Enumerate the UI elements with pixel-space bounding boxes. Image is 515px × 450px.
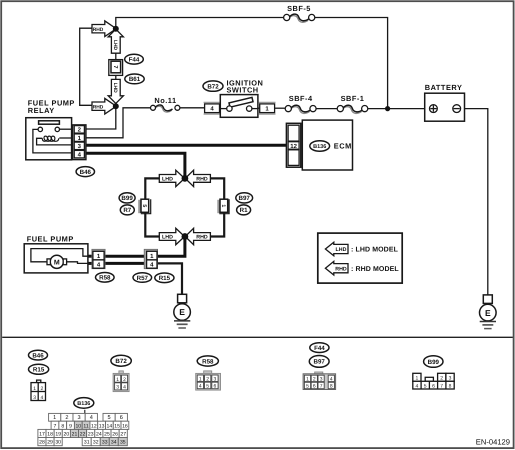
svg-text:1: 1 — [33, 386, 36, 392]
svg-text:R1: R1 — [240, 207, 248, 214]
pinout connector R58 3x2 — [196, 371, 221, 390]
svg-text:RELAY: RELAY — [28, 106, 55, 115]
svg-text:5: 5 — [206, 384, 209, 390]
svg-text:8: 8 — [61, 423, 64, 429]
oval label B46 — [76, 167, 94, 177]
pinout connector B97 2x4 — [303, 372, 336, 390]
svg-text:6: 6 — [214, 384, 217, 390]
svg-text:8: 8 — [330, 384, 333, 390]
svg-text:3: 3 — [320, 377, 323, 383]
wire bottom node down to fuel pump feed row (thick) — [157, 237, 185, 257]
node diamond top — [182, 175, 189, 182]
svg-text:B61: B61 — [129, 76, 141, 83]
oval label R58 — [96, 273, 115, 283]
svg-text:14: 14 — [107, 423, 113, 429]
svg-text:LHD: LHD — [336, 247, 347, 253]
connector arrow RHD bottom — [92, 98, 116, 114]
node diamond bottom — [182, 233, 189, 240]
svg-text:3: 3 — [449, 376, 452, 382]
svg-text:: RHD MODEL: : RHD MODEL — [351, 266, 399, 273]
ground E left — [174, 294, 191, 328]
legend box LHD/RHD model — [318, 233, 402, 283]
pinout oval R58 — [197, 356, 218, 366]
svg-text:ECM: ECM — [334, 142, 352, 151]
svg-text:R15: R15 — [33, 367, 45, 374]
svg-text:F44: F44 — [129, 57, 140, 64]
svg-text:R58: R58 — [99, 275, 111, 282]
pinout oval R15 — [28, 364, 48, 374]
wire diamond left branch to connector B99/R7 — [145, 178, 160, 236]
oval label B99 — [119, 193, 135, 203]
pinout oval B99 — [424, 356, 443, 368]
connector arrow RHD top — [92, 21, 116, 37]
svg-text:3: 3 — [78, 415, 81, 421]
svg-text:1: 1 — [416, 376, 419, 382]
svg-text:4: 4 — [199, 384, 202, 390]
fusible link SBF-5 — [284, 4, 315, 22]
svg-text:11: 11 — [83, 423, 88, 429]
svg-text:22: 22 — [80, 432, 86, 438]
pinout oval B136 — [74, 398, 94, 409]
svg-text:7: 7 — [320, 384, 323, 390]
svg-text:29: 29 — [47, 440, 53, 446]
fuse F44 (No.7) — [109, 60, 123, 76]
svg-text:F44: F44 — [314, 345, 325, 352]
svg-text:FUEL PUMP: FUEL PUMP — [27, 234, 74, 243]
node chain bottom — [113, 103, 119, 109]
svg-text:B99: B99 — [121, 195, 133, 202]
svg-text:4: 4 — [123, 385, 126, 391]
svg-text:1: 1 — [306, 377, 309, 383]
svg-text:SWITCH: SWITCH — [227, 86, 259, 95]
wire diamond right branch to connector B97/R1 — [210, 178, 224, 236]
svg-text:1: 1 — [116, 377, 119, 383]
svg-text:31: 31 — [84, 440, 90, 446]
oval label B97 — [236, 193, 253, 203]
pinout oval F44 — [310, 343, 329, 353]
svg-text:R57: R57 — [137, 275, 149, 282]
svg-text:5: 5 — [141, 204, 147, 207]
wire chain segments between arrows and fuse — [115, 53, 117, 80]
oval label R7 — [120, 205, 134, 215]
svg-text:17: 17 — [39, 432, 45, 438]
svg-text:R7: R7 — [123, 207, 131, 214]
fuel pump assembly — [24, 234, 92, 273]
svg-text:M: M — [54, 260, 60, 267]
svg-text:LHD: LHD — [162, 235, 173, 241]
svg-text:B136: B136 — [313, 144, 326, 150]
svg-text:No.11: No.11 — [154, 96, 176, 105]
wire relay pin3 to ECM pin 12 (thick) — [86, 144, 288, 147]
svg-text:24: 24 — [96, 432, 102, 438]
ignition switch B72 — [203, 79, 276, 118]
svg-text:7: 7 — [54, 423, 57, 429]
fuel pump relay B46 — [26, 99, 86, 160]
svg-text:4: 4 — [41, 395, 44, 401]
pinout connector B46/R15 2x2 — [31, 380, 46, 401]
svg-text:SBF-1: SBF-1 — [341, 94, 365, 103]
svg-text:B46: B46 — [32, 352, 44, 359]
svg-text:2: 2 — [41, 386, 44, 392]
wire top rail from LHD/RHD chain to SBF-5 and down to battery junction — [116, 18, 388, 109]
ECM B136 — [286, 120, 352, 170]
svg-text:23: 23 — [88, 432, 94, 438]
fusible link SBF-1 — [337, 94, 368, 113]
svg-text:33: 33 — [102, 440, 108, 446]
svg-text:4: 4 — [416, 383, 419, 389]
connector R57/R15 — [144, 249, 157, 268]
pinout connector B72 2x2 — [113, 371, 129, 392]
svg-text:7: 7 — [112, 65, 118, 68]
wire battery minus to right ground — [461, 109, 488, 295]
svg-text:SBF-5: SBF-5 — [287, 4, 311, 13]
connector arrow LHD down (bottom of chain) — [108, 79, 123, 103]
svg-text:2: 2 — [123, 377, 126, 383]
svg-text:7: 7 — [440, 383, 443, 389]
svg-text:28: 28 — [39, 440, 45, 446]
svg-text:21: 21 — [72, 432, 78, 438]
wire relay pin4 to LHD/RHD top node (thick) — [86, 153, 185, 176]
svg-text:4: 4 — [90, 415, 93, 421]
svg-text:4: 4 — [330, 377, 333, 383]
wire relay pin2 up to chain node — [86, 106, 116, 129]
pinout oval B46 — [29, 350, 48, 360]
svg-text:6: 6 — [313, 384, 316, 390]
svg-text:LHD: LHD — [112, 40, 118, 51]
svg-text:R58: R58 — [202, 358, 214, 365]
oval label R57 — [133, 273, 152, 283]
connector B97/R1 (right diamond) — [217, 199, 229, 214]
wire relay pin1 to No.11 fuse and ignition switch row — [86, 108, 430, 138]
svg-text:18: 18 — [47, 432, 53, 438]
connector R58 (on pump) — [92, 249, 105, 268]
svg-text:3: 3 — [214, 377, 217, 383]
drawing number EN-04129 — [476, 438, 510, 447]
svg-text:1: 1 — [199, 377, 202, 383]
connector arrow LHD up (top) — [108, 29, 123, 53]
connector arrow RHD (top node, right) — [185, 170, 210, 186]
svg-text:R15: R15 — [159, 275, 171, 282]
connector arrow LHD (bottom node, left) — [159, 228, 184, 244]
svg-text:13: 13 — [99, 423, 105, 429]
pinout connector B136 grid — [38, 410, 129, 446]
node battery junction — [385, 106, 390, 111]
oval label R1 — [237, 205, 251, 215]
svg-text:RHD: RHD — [196, 177, 208, 183]
svg-text:1: 1 — [220, 204, 226, 207]
svg-text:12: 12 — [91, 423, 97, 429]
svg-text:3: 3 — [116, 385, 119, 391]
svg-text:RHD: RHD — [93, 27, 104, 33]
svg-text:20: 20 — [64, 432, 70, 438]
svg-text:2: 2 — [313, 377, 316, 383]
ground E right — [480, 295, 497, 329]
svg-text:16: 16 — [122, 423, 128, 429]
pinout oval B72 — [111, 355, 131, 366]
svg-text:2: 2 — [206, 377, 209, 383]
svg-text:B72: B72 — [207, 83, 219, 90]
svg-text:SBF-4: SBF-4 — [289, 94, 313, 103]
node chain top — [113, 26, 119, 32]
svg-text:RHD: RHD — [335, 266, 347, 272]
svg-text:8: 8 — [449, 383, 452, 389]
svg-text:B97: B97 — [239, 195, 251, 202]
wire left RHD bypass rail — [80, 28, 93, 105]
oval label R15 — [155, 273, 174, 283]
wire fuel pump connector rows (thick) — [88, 256, 145, 263]
svg-text:LHD: LHD — [112, 83, 118, 94]
connector B99/R7 (left diamond) — [138, 199, 151, 214]
fuse No.11 — [151, 96, 180, 112]
svg-text:RHD: RHD — [196, 235, 208, 241]
svg-text:: LHD MODEL: : LHD MODEL — [351, 247, 399, 254]
svg-text:25: 25 — [104, 432, 110, 438]
pinout connector B99 — [413, 373, 454, 389]
pinout oval B97 — [309, 356, 329, 368]
svg-text:B97: B97 — [314, 359, 326, 366]
oval label F44 — [125, 54, 144, 64]
svg-text:BATTERY: BATTERY — [425, 83, 463, 92]
svg-text:5: 5 — [424, 383, 427, 389]
svg-text:3: 3 — [33, 395, 36, 401]
svg-text:6: 6 — [432, 383, 435, 389]
oval label B61 — [125, 74, 144, 84]
svg-text:LHD: LHD — [162, 177, 173, 183]
svg-text:2: 2 — [65, 415, 68, 421]
svg-text:6: 6 — [120, 415, 123, 421]
svg-text:2: 2 — [440, 376, 443, 382]
svg-text:B72: B72 — [115, 358, 127, 365]
svg-text:35: 35 — [120, 440, 126, 446]
svg-text:12: 12 — [290, 143, 297, 150]
svg-text:EN-04129: EN-04129 — [476, 438, 510, 447]
svg-text:E: E — [485, 308, 491, 318]
svg-text:E: E — [179, 307, 185, 317]
svg-text:B46: B46 — [80, 169, 92, 176]
svg-text:1: 1 — [53, 415, 56, 421]
svg-text:15: 15 — [114, 423, 120, 429]
svg-text:5: 5 — [108, 415, 111, 421]
connector arrow LHD (top node, left) — [159, 170, 184, 186]
connector arrow RHD (bottom node, right) — [185, 228, 210, 244]
battery — [425, 83, 465, 121]
svg-text:5: 5 — [306, 384, 309, 390]
wire pump ground branch to left ground E — [157, 263, 182, 294]
svg-text:19: 19 — [55, 432, 61, 438]
svg-text:B99: B99 — [428, 359, 440, 366]
svg-text:26: 26 — [112, 432, 118, 438]
fusible link SBF-4 — [285, 94, 316, 113]
svg-text:9: 9 — [69, 423, 72, 429]
svg-text:30: 30 — [55, 440, 61, 446]
svg-text:B136: B136 — [77, 401, 90, 407]
svg-text:RHD: RHD — [93, 104, 104, 110]
svg-text:10: 10 — [75, 423, 81, 429]
svg-text:32: 32 — [93, 440, 99, 446]
svg-text:27: 27 — [120, 432, 126, 438]
svg-text:34: 34 — [111, 440, 117, 446]
